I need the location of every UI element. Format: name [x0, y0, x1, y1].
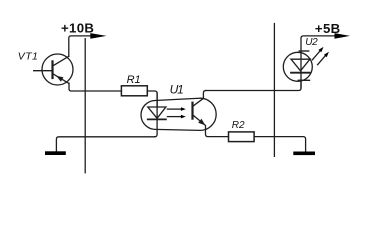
U2 emission arrow 1 shaft: [312, 50, 320, 60]
U1 phototransistor collector diagonal and wire up: [193, 91, 206, 107]
svg-text:U2: U2: [305, 37, 318, 48]
svg-text:VT1: VT1: [18, 51, 38, 63]
power +10V arrowhead: [90, 33, 106, 39]
wire U1 collector to U2 cathode: [206, 80, 301, 91]
wire R2 to right ground: [254, 137, 306, 152]
power +10V arrow shaft and wire to VT1 collector: [69, 36, 92, 56]
VT1 base lead: [34, 70, 53, 72]
ground right bar: [293, 152, 315, 156]
ground left bar: [45, 151, 66, 155]
power +5V arrow shaft and wire down through LED U2: [301, 36, 335, 88]
U1 coupling arrow 1 shaft: [167, 108, 181, 110]
resistor R1: [121, 86, 147, 96]
resistor R2: [229, 132, 255, 142]
VT1 collector diagonal: [53, 56, 69, 66]
VT1 emitter arrowhead (PNP, points to base): [56, 76, 63, 82]
rail right vertical line: [273, 24, 275, 157]
rail left vertical line: [84, 39, 86, 173]
U1 emitter arrowhead (NPN): [198, 119, 205, 126]
U2 emission arrow 2 shaft: [318, 55, 326, 65]
LED U2 housing circle: [283, 52, 312, 81]
U1 coupling arrow 2 shaft: [167, 116, 181, 118]
svg-text:+10В: +10В: [61, 21, 94, 36]
U2 emission arrow 1 head: [318, 47, 323, 52]
U1 coupling arrow 2 head: [181, 115, 186, 119]
svg-text:R1: R1: [127, 74, 141, 86]
LED U2 cathode bar: [291, 72, 310, 74]
power +5V arrowhead: [335, 33, 351, 39]
wire VT1 emitter to R1: [69, 83, 121, 91]
U1 phototransistor base line: [191, 103, 193, 119]
VT1 housing circle: [42, 54, 73, 85]
U2 bottom terminal tick: [298, 79, 309, 81]
U2 emission arrow 2 head: [324, 52, 329, 57]
U1 phototransistor emitter diagonal and wire to R2: [193, 115, 229, 137]
U1 LED anode/cathode lead (vertical): [155, 93, 157, 137]
svg-text:U1: U1: [170, 82, 184, 96]
svg-text:R2: R2: [232, 120, 245, 131]
wire R1 to U1 LED anode: [147, 91, 157, 106]
transistor VT1: [34, 54, 73, 85]
U1 LED cathode bar: [148, 118, 166, 120]
VT1 emitter diagonal: [53, 74, 69, 84]
U1 coupling arrow 1 head: [181, 107, 186, 111]
optocoupler U1 body (capsule hull: small left cap, large right cap): [141, 98, 216, 130]
VT1 base line: [51, 61, 53, 78]
U1 LED triangle: [148, 107, 166, 118]
LED U2 triangle: [291, 59, 310, 71]
U2 top terminal tick: [299, 50, 308, 52]
wire U1 LED cathode to left ground: [56, 137, 154, 152]
